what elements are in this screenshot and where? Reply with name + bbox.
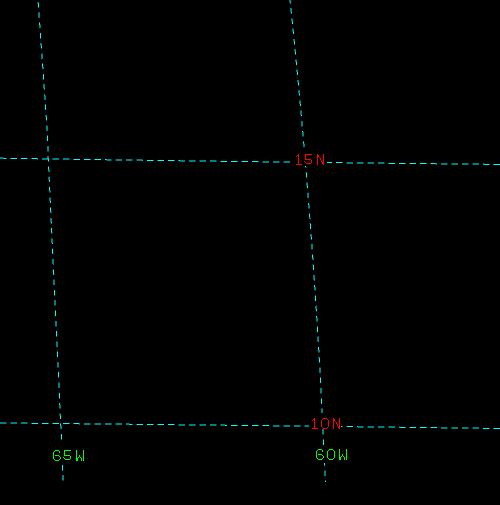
meridian 60W line: [290, 0, 325, 482]
label 60W (green) with black mask: [313, 447, 349, 463]
meridian 65W line: [38, 0, 63, 481]
label 10N (red) with black mask: [309, 413, 341, 429]
label 65W (green) with black mask: [50, 444, 86, 463]
parallel 10N line: [0, 423, 500, 429]
parallel 15N line: [0, 158, 500, 164]
label 15N (red) with black mask: [292, 147, 327, 166]
